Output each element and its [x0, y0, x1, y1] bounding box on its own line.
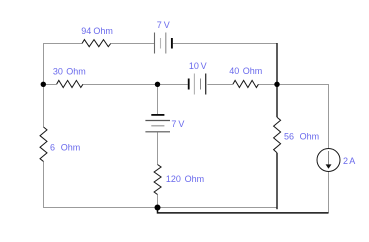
wire mid row R30 to battery 10V: [83, 84, 188, 86]
resistor 94 Ohm: [82, 40, 111, 47]
node dot left-mid: [41, 82, 46, 87]
wire right vertical upper black: [276, 43, 278, 117]
wire left vertical lower: [43, 162, 45, 208]
wire left vertical upper: [43, 43, 45, 127]
svg-text:V: V: [201, 61, 207, 71]
svg-text:Ohm: Ohm: [61, 143, 81, 153]
wire bottom black loop: [158, 208, 329, 213]
label 30 Ohm: [53, 66, 86, 76]
svg-text:120: 120: [166, 174, 181, 184]
svg-text:A: A: [349, 156, 355, 166]
resistor 120 Ohm: [154, 165, 161, 195]
resistor 56 Ohm: [274, 117, 281, 153]
battery V 7V middle: [145, 115, 170, 132]
node dot mid-bottom: [155, 205, 161, 211]
svg-text:7: 7: [157, 20, 162, 30]
wire bottom gray: [43, 207, 277, 209]
label 56 Ohm: [284, 132, 319, 142]
svg-text:30: 30: [53, 66, 63, 76]
current source 2A: [317, 149, 340, 172]
label 7 V top: [157, 20, 170, 30]
wire mid row battery 10V to R40: [207, 84, 233, 86]
svg-text:94: 94: [81, 26, 91, 36]
svg-text:Ohm: Ohm: [93, 26, 113, 36]
svg-text:2: 2: [343, 156, 348, 166]
svg-text:V: V: [164, 20, 170, 30]
svg-text:56: 56: [284, 132, 294, 142]
label 10 V: [189, 61, 207, 71]
label 40 Ohm: [229, 66, 262, 76]
label 120 Ohm: [166, 174, 204, 184]
svg-text:7: 7: [171, 119, 176, 129]
wire top-right to corner: [173, 43, 277, 45]
svg-text:Ohm: Ohm: [66, 66, 86, 76]
wire top-left horizontal: [43, 43, 82, 45]
label 94 Ohm: [81, 26, 113, 36]
wire mid vertical above battery 7V: [157, 85, 159, 115]
wire far right vertical below source: [328, 172, 330, 213]
svg-text:V: V: [178, 119, 184, 129]
wire right vertical lower black: [276, 153, 278, 209]
svg-text:10: 10: [189, 61, 199, 71]
node dot mid-mid: [155, 82, 160, 87]
wire far right vertical above source: [328, 84, 330, 149]
wire mid row left of R30: [43, 84, 57, 86]
wire mid vertical battery to R120: [157, 132, 159, 164]
label 2 A: [343, 156, 355, 166]
svg-text:40: 40: [229, 66, 239, 76]
label 7 V middle: [171, 119, 184, 129]
wire mid vertical below R120: [157, 195, 159, 208]
svg-text:Ohm: Ohm: [243, 66, 263, 76]
wire mid row R40 to far right corner: [258, 84, 329, 86]
svg-text:6: 6: [50, 143, 55, 153]
node dot right-mid: [274, 82, 279, 87]
battery V 7V top: [155, 33, 172, 54]
battery V 10V: [189, 74, 206, 95]
resistor 6 Ohm: [40, 127, 47, 162]
resistor 40 Ohm: [233, 80, 259, 87]
svg-text:Ohm: Ohm: [300, 132, 320, 142]
label 6 Ohm: [50, 143, 80, 153]
resistor 30 Ohm: [57, 80, 83, 87]
svg-text:Ohm: Ohm: [185, 174, 205, 184]
wire top between R94 and battery: [111, 43, 155, 45]
